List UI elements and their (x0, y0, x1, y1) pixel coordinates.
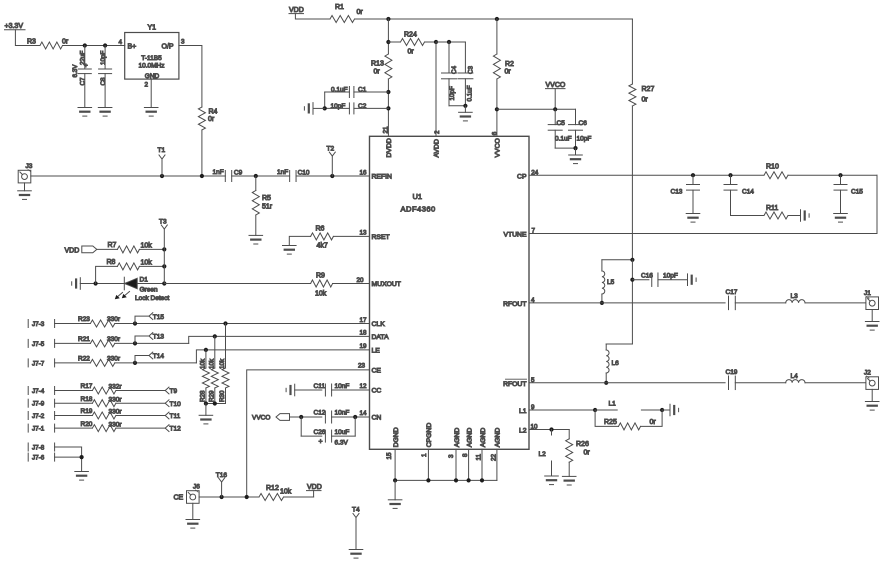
svg-text:MUXOUT: MUXOUT (372, 281, 401, 288)
svg-text:10pF: 10pF (100, 50, 107, 65)
svg-text:C13: C13 (671, 189, 683, 196)
svg-text:VVCO: VVCO (252, 415, 270, 422)
svg-text:16: 16 (360, 169, 368, 176)
svg-text:J7-9: J7-9 (32, 401, 45, 408)
svg-text:11: 11 (475, 453, 482, 460)
svg-text:24: 24 (531, 169, 539, 176)
svg-text:10k: 10k (141, 260, 153, 267)
svg-text:U1: U1 (413, 192, 423, 201)
svg-text:J7-7: J7-7 (32, 360, 45, 367)
svg-text:ADF4360: ADF4360 (401, 205, 436, 214)
svg-text:J2: J2 (864, 370, 871, 377)
svg-text:1nF: 1nF (213, 169, 224, 176)
svg-text:0.1uF: 0.1uF (467, 85, 474, 101)
svg-text:REFIN: REFIN (372, 173, 392, 180)
svg-text:22uF: 22uF (80, 50, 87, 65)
svg-text:VDD: VDD (289, 7, 304, 14)
svg-text:AGND: AGND (495, 428, 502, 448)
svg-text:C6: C6 (579, 120, 588, 127)
svg-text:J7-1: J7-1 (32, 426, 45, 433)
svg-text:J3: J3 (26, 163, 33, 170)
svg-text:R24: R24 (404, 32, 417, 39)
svg-text:6.3V: 6.3V (335, 440, 349, 447)
svg-text:Green: Green (140, 287, 158, 294)
svg-text:B+: B+ (128, 43, 137, 50)
svg-text:51r: 51r (262, 204, 273, 211)
svg-text:17: 17 (360, 317, 368, 324)
svg-text:0r: 0r (208, 116, 215, 123)
svg-text:T16: T16 (216, 472, 228, 479)
svg-text:19: 19 (360, 343, 368, 350)
svg-text:C9: C9 (234, 169, 243, 176)
svg-text:10k: 10k (200, 358, 207, 369)
svg-text:330r: 330r (109, 409, 123, 416)
svg-text:R30: R30 (219, 390, 226, 402)
svg-text:C5: C5 (557, 120, 566, 127)
svg-text:10nF: 10nF (335, 383, 350, 390)
svg-text:330r: 330r (107, 336, 121, 343)
svg-text:R28: R28 (200, 390, 207, 402)
svg-text:AVDD: AVDD (434, 139, 441, 157)
svg-text:CLK: CLK (372, 321, 386, 328)
svg-text:C19: C19 (726, 369, 738, 376)
svg-text:4: 4 (119, 39, 123, 46)
svg-text:GND: GND (145, 73, 160, 80)
svg-text:O/P: O/P (162, 43, 174, 50)
svg-text:330r: 330r (107, 316, 121, 323)
svg-text:330r: 330r (107, 355, 121, 362)
svg-text:L1: L1 (519, 408, 527, 415)
svg-text:L2: L2 (519, 427, 527, 434)
svg-text:0r: 0r (357, 9, 364, 16)
svg-text:12: 12 (360, 383, 368, 390)
svg-text:4: 4 (531, 297, 535, 304)
svg-text:J6: J6 (193, 484, 200, 491)
svg-text:R3: R3 (27, 39, 36, 46)
svg-text:0r: 0r (62, 39, 69, 46)
svg-text:AGND: AGND (480, 428, 487, 448)
svg-text:DATA: DATA (372, 334, 390, 341)
svg-text:R23: R23 (78, 316, 90, 323)
svg-text:R19: R19 (81, 408, 93, 415)
svg-text:C16: C16 (641, 272, 653, 279)
svg-text:C15: C15 (851, 189, 863, 196)
svg-text:R13: R13 (371, 61, 384, 68)
svg-text:R22: R22 (78, 355, 90, 362)
svg-text:L2: L2 (539, 451, 547, 458)
svg-text:332r: 332r (109, 384, 123, 391)
svg-text:R29: R29 (208, 390, 215, 402)
svg-text:1: 1 (421, 453, 428, 457)
svg-text:T15: T15 (153, 314, 165, 321)
svg-text:T2: T2 (327, 146, 335, 153)
svg-text:22: 22 (490, 453, 497, 461)
svg-text:D1: D1 (140, 277, 149, 284)
svg-text:C26: C26 (314, 429, 326, 436)
svg-text:0r: 0r (505, 69, 512, 76)
svg-text:T13: T13 (153, 334, 165, 341)
svg-text:10k: 10k (280, 489, 292, 496)
svg-text:330r: 330r (109, 396, 123, 403)
svg-text:10uF: 10uF (335, 429, 350, 436)
svg-text:10k: 10k (219, 358, 226, 369)
svg-text:0r: 0r (408, 49, 415, 56)
svg-text:VDD: VDD (307, 484, 322, 491)
svg-text:T12: T12 (170, 426, 182, 433)
svg-text:L1: L1 (609, 401, 617, 408)
svg-text:C10: C10 (298, 169, 310, 176)
svg-text:J7-2: J7-2 (32, 413, 45, 420)
svg-text:T1: T1 (158, 147, 166, 154)
svg-text:VDD: VDD (65, 247, 80, 254)
svg-text:T-11B5: T-11B5 (141, 55, 162, 62)
svg-text:J1: J1 (864, 290, 871, 297)
svg-text:C11: C11 (314, 383, 326, 390)
svg-text:T10: T10 (170, 401, 182, 408)
svg-text:5: 5 (531, 377, 535, 384)
svg-text:13: 13 (360, 230, 368, 237)
svg-text:0r: 0r (374, 69, 381, 76)
svg-text:+: + (319, 439, 323, 446)
svg-text:J7-6: J7-6 (32, 455, 45, 462)
svg-text:DGND: DGND (393, 427, 400, 447)
svg-text:T11: T11 (170, 413, 181, 420)
svg-text:10nF: 10nF (335, 410, 350, 417)
svg-text:+3.3V: +3.3V (5, 23, 24, 30)
svg-text:R9: R9 (316, 273, 325, 280)
svg-text:10pF: 10pF (449, 86, 456, 101)
svg-text:R21: R21 (78, 336, 90, 343)
svg-text:C17: C17 (726, 289, 738, 296)
svg-text:RFOUT: RFOUT (503, 301, 526, 308)
svg-text:R7: R7 (108, 242, 117, 249)
svg-text:T3: T3 (159, 219, 167, 226)
svg-text:J7-4: J7-4 (32, 388, 45, 395)
svg-text:L4: L4 (791, 373, 799, 380)
svg-text:1nF: 1nF (277, 169, 288, 176)
svg-text:0.1uF: 0.1uF (555, 136, 572, 143)
svg-text:15: 15 (386, 452, 393, 460)
svg-text:LE: LE (372, 347, 381, 354)
svg-text:20: 20 (357, 277, 365, 284)
svg-text:R1: R1 (335, 4, 344, 11)
svg-text:18: 18 (360, 330, 368, 337)
svg-text:21: 21 (383, 126, 390, 134)
svg-text:R25: R25 (604, 419, 617, 426)
svg-text:2: 2 (434, 130, 441, 134)
svg-text:L6: L6 (612, 360, 620, 367)
svg-text:AGND: AGND (466, 428, 473, 448)
svg-text:L5: L5 (607, 279, 615, 286)
svg-text:VTUNE: VTUNE (503, 232, 527, 239)
svg-text:6: 6 (492, 131, 499, 135)
svg-text:Lock Detect: Lock Detect (135, 295, 170, 302)
svg-text:R26: R26 (576, 441, 589, 448)
svg-text:AGND: AGND (454, 428, 461, 448)
svg-text:23: 23 (358, 363, 366, 370)
svg-text:10pF: 10pF (663, 272, 678, 279)
svg-text:R20: R20 (81, 421, 93, 428)
svg-text:R12: R12 (266, 485, 279, 492)
svg-text:CN: CN (372, 414, 382, 421)
svg-text:R17: R17 (81, 383, 93, 390)
svg-text:C7: C7 (80, 77, 87, 86)
svg-text:C12: C12 (314, 410, 326, 417)
svg-text:0r: 0r (650, 419, 657, 426)
svg-text:R27: R27 (642, 86, 655, 93)
svg-text:10: 10 (531, 423, 539, 430)
svg-text:9: 9 (531, 404, 535, 411)
svg-text:J7-3: J7-3 (32, 321, 45, 328)
svg-text:Y1: Y1 (148, 25, 157, 32)
svg-text:6.3V: 6.3V (72, 64, 79, 78)
svg-text:2: 2 (145, 82, 149, 89)
svg-text:R5: R5 (262, 195, 271, 202)
svg-text:J7-8: J7-8 (32, 444, 45, 451)
svg-text:R8: R8 (107, 259, 116, 266)
svg-text:L3: L3 (791, 293, 799, 300)
svg-text:8: 8 (462, 453, 469, 457)
svg-text:10.0MHz: 10.0MHz (138, 63, 164, 70)
svg-text:RFOUT: RFOUT (503, 381, 526, 388)
svg-text:10pF: 10pF (577, 136, 592, 143)
svg-text:R10: R10 (766, 164, 779, 171)
svg-text:C3: C3 (468, 65, 475, 74)
svg-text:CC: CC (372, 387, 382, 394)
svg-text:10k: 10k (141, 243, 153, 250)
svg-text:T9: T9 (170, 388, 178, 395)
svg-text:J7-5: J7-5 (32, 341, 45, 348)
svg-text:VVCO: VVCO (546, 82, 566, 89)
svg-text:DVDD: DVDD (386, 138, 393, 157)
svg-text:14: 14 (360, 410, 368, 417)
svg-text:7: 7 (532, 228, 536, 235)
svg-text:C8: C8 (100, 77, 107, 86)
svg-text:330r: 330r (109, 421, 123, 428)
svg-text:R11: R11 (766, 205, 778, 212)
svg-text:T4: T4 (352, 507, 360, 514)
svg-text:3: 3 (181, 39, 185, 46)
svg-text:0r: 0r (584, 450, 591, 457)
svg-text:10k: 10k (208, 358, 215, 369)
svg-text:R2: R2 (505, 61, 514, 68)
svg-text:T14: T14 (153, 353, 165, 360)
svg-text:R4: R4 (209, 109, 218, 116)
svg-text:3: 3 (448, 454, 455, 458)
svg-text:4k7: 4k7 (317, 243, 328, 250)
svg-text:RSET: RSET (372, 234, 390, 241)
svg-text:R18: R18 (81, 396, 93, 403)
svg-text:CE: CE (174, 495, 184, 502)
svg-text:CE: CE (372, 367, 382, 374)
svg-text:10k: 10k (315, 290, 327, 297)
svg-text:C4: C4 (451, 65, 458, 74)
svg-text:CPGND: CPGND (426, 423, 433, 448)
svg-text:R6: R6 (316, 226, 325, 233)
svg-text:VVCO: VVCO (495, 138, 502, 157)
svg-text:CP: CP (517, 173, 527, 180)
svg-text:0r: 0r (642, 97, 649, 104)
svg-text:C14: C14 (742, 189, 754, 196)
